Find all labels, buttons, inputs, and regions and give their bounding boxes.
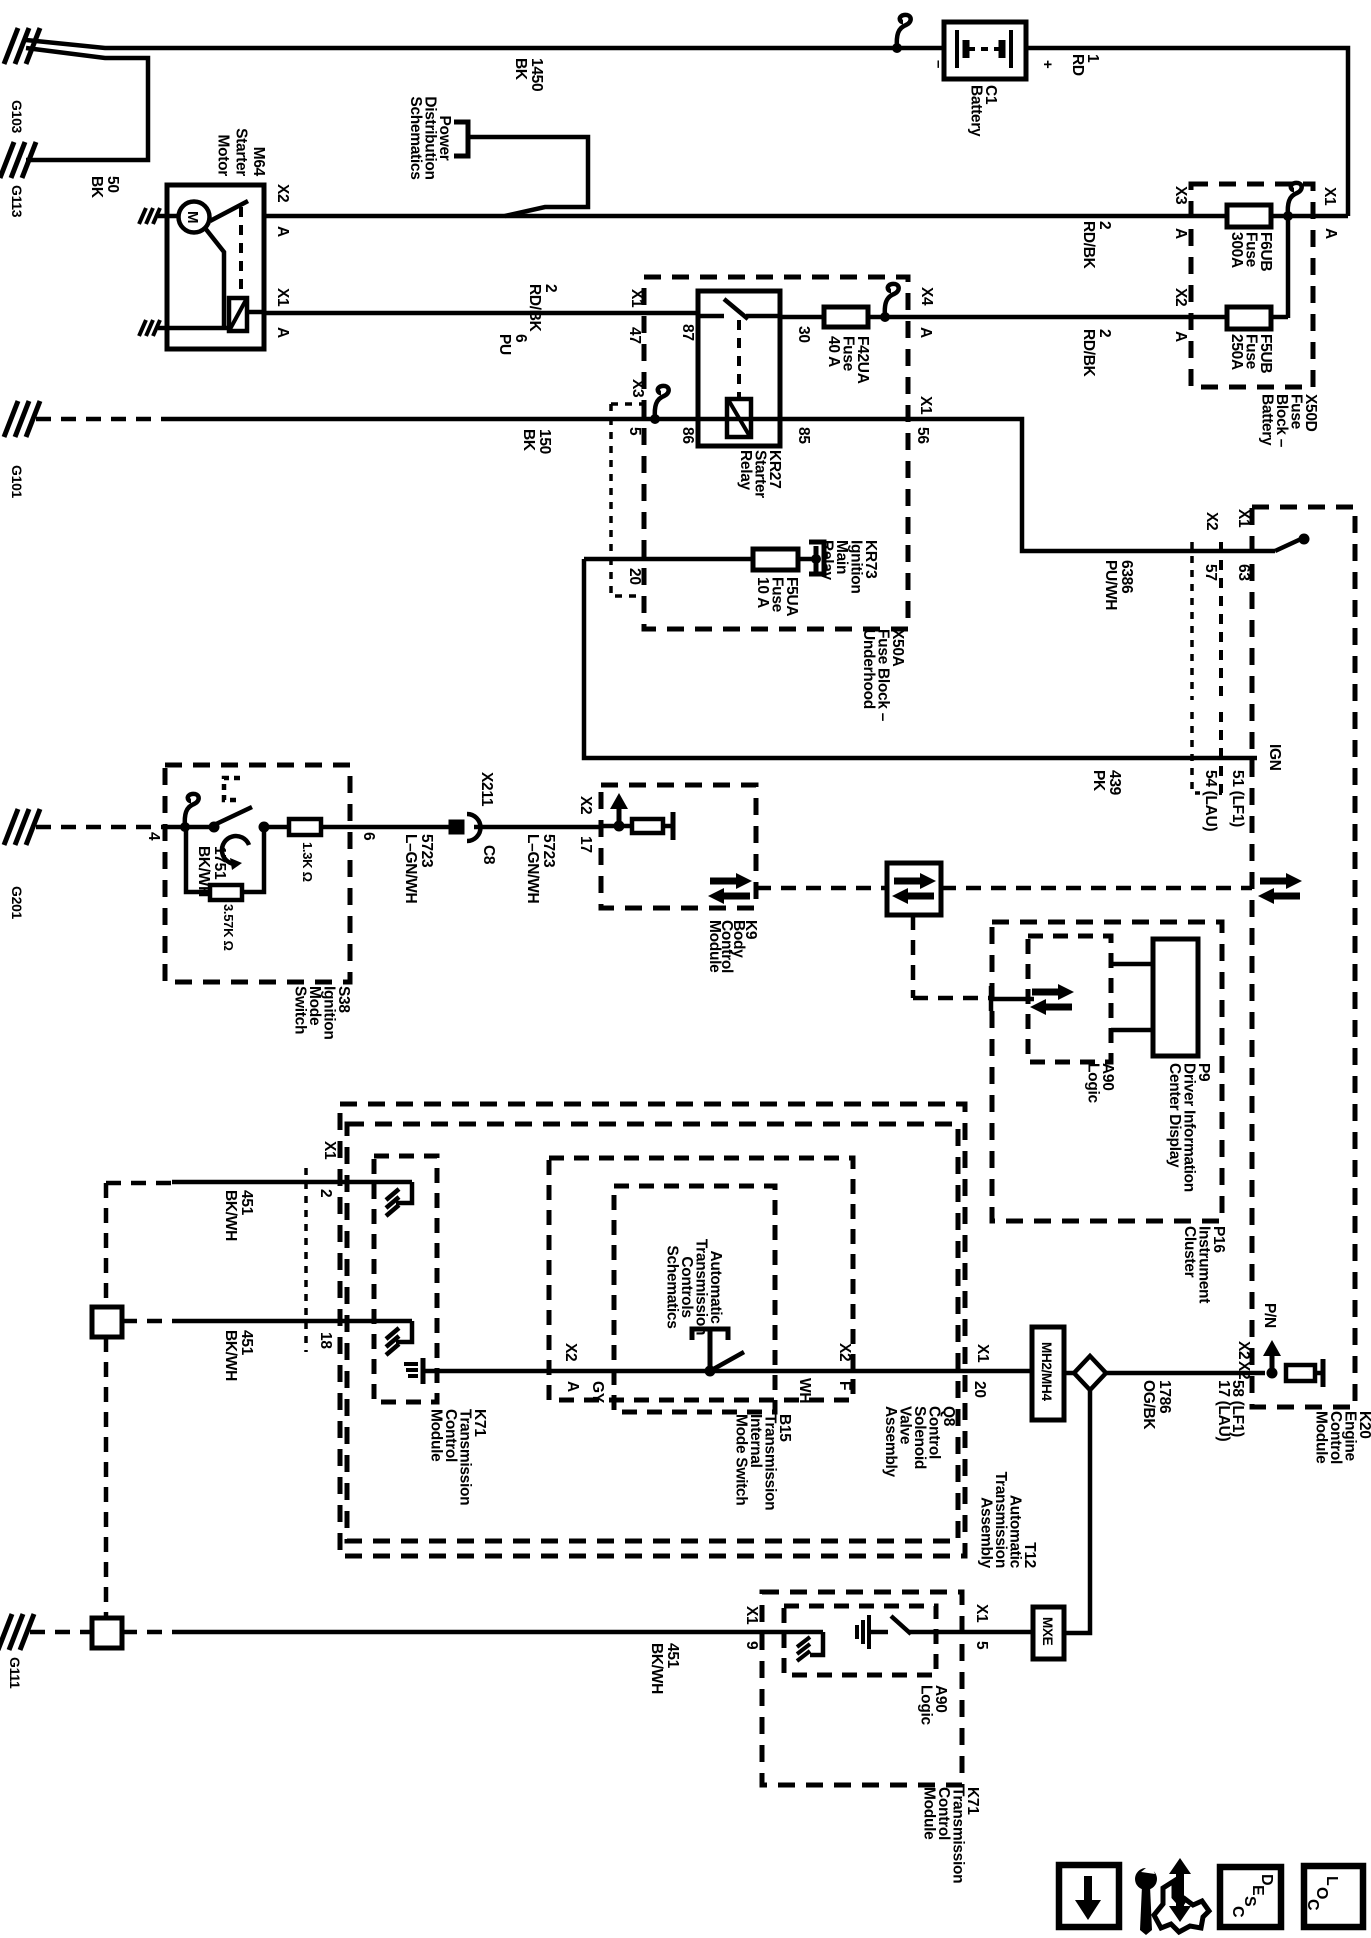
- K20 voltage bar: [1315, 1371, 1323, 1376]
- relay 87 stub: [698, 314, 724, 319]
- serial data wire K9 to splice box: [756, 886, 887, 891]
- wire MH2 to diamond: [1064, 1371, 1075, 1376]
- S38 switch pivot: [209, 822, 220, 833]
- power distribution tap bracket: [454, 122, 468, 156]
- splice curl at F6UB output: [1288, 183, 1302, 216]
- wire 1450 BK: G103 to battery: [26, 40, 944, 48]
- K9 junction: [614, 821, 625, 832]
- hook ground (A90): [810, 1632, 823, 1655]
- svg-text:5: 5: [626, 427, 643, 436]
- connector X1 line (TCM): [304, 1168, 308, 1352]
- svg-text:X2: X2: [577, 796, 594, 814]
- A90 logic dashed box (cluster): [1028, 936, 1111, 1062]
- svg-text:30: 30: [795, 326, 812, 343]
- wire 439 PK riser: [584, 559, 1257, 758]
- engine control module K20 dashed box: [1252, 507, 1355, 1407]
- svg-text:A: A: [274, 327, 291, 338]
- wire 150 BK dashed from G101: [36, 417, 170, 422]
- svg-text:X4: X4: [918, 287, 935, 306]
- wire into A90 logic: [991, 997, 1034, 1002]
- serial data wire to K20: [941, 886, 1252, 891]
- fuse F5UA: [753, 549, 798, 570]
- P9 stub upper: [1111, 962, 1153, 967]
- wire 451 BK/WH upper dashed: [106, 1181, 172, 1186]
- ignition mode switch S38 dashed box: [165, 765, 350, 982]
- ground G201: [4, 809, 18, 845]
- wire 150 BK solid to relay 86: [170, 417, 698, 422]
- starter relay KR27 box: [698, 291, 780, 446]
- junction square (G111): [92, 1618, 122, 1648]
- icon tools: [1135, 1868, 1157, 1890]
- fuse F6UB: [1227, 205, 1271, 227]
- display P9 box: [1153, 939, 1198, 1056]
- svg-text:20: 20: [626, 568, 643, 585]
- B15 junction: [705, 1366, 716, 1377]
- S38 mechanical link bracket dashed: [224, 778, 240, 800]
- starter motor M64 box: [167, 185, 264, 349]
- wire 2 RD/BK jog to power distribution tap: [470, 137, 588, 216]
- splice curl S38: [185, 794, 199, 827]
- battery C1: [944, 22, 1026, 79]
- wire 1751 BK/WH dashed from G201: [36, 825, 170, 830]
- ground G113: [0, 142, 14, 178]
- svg-text:O: O: [1313, 1887, 1330, 1899]
- wire 451 BK/WH mid dashed: [122, 1319, 185, 1324]
- S38 parallel branch wire: [242, 827, 264, 892]
- K9 pullup resistor: [632, 819, 663, 833]
- hook ground (TCM pin 2): [396, 1182, 412, 1203]
- starter switch blade: [210, 201, 248, 221]
- svg-text:X1: X1: [628, 289, 645, 308]
- wire 6386 PU/WH: relay 85 to instrument cluster: [780, 419, 1275, 551]
- wire 451 BK/WH mid solid: [185, 1319, 412, 1324]
- svg-text:X1: X1: [274, 288, 291, 307]
- K20 comparator resistor: [1286, 1365, 1315, 1381]
- svg-text:6: 6: [360, 832, 377, 841]
- splice curl on battery feed: [897, 15, 911, 48]
- svg-text:X1: X1: [973, 1604, 990, 1623]
- fuse block X50A dashed box: [644, 277, 908, 629]
- P16 boundary tick: [989, 986, 994, 1011]
- svg-text:1.3K Ω: 1.3K Ω: [300, 842, 315, 882]
- svg-text:X1: X1: [1235, 509, 1252, 528]
- body control module K9 dashed box: [601, 785, 756, 908]
- icon DESC box: [1220, 1867, 1281, 1927]
- S38 wire to switch pivot: [185, 825, 214, 830]
- KR73 tap tick: [814, 546, 819, 572]
- svg-text:G103: G103: [9, 100, 25, 134]
- svg-text:X2: X2: [274, 184, 291, 202]
- svg-text:F5UBFuse250A: F5UBFuse250A: [1228, 334, 1274, 373]
- svg-text:X2: X2: [1203, 512, 1220, 530]
- wire diamond to MXE: [1064, 1390, 1090, 1633]
- ground G103: [4, 28, 18, 64]
- relay coil: [727, 399, 751, 437]
- wire 2 RD/BK: F42UA to F5UB: [780, 315, 1288, 320]
- svg-text:X1: X1: [917, 396, 934, 415]
- svg-text:–: –: [930, 60, 947, 68]
- svg-text:IGN: IGN: [1266, 744, 1283, 771]
- svg-text:WH: WH: [796, 1378, 813, 1403]
- svg-text:X2: X2: [1235, 1361, 1252, 1379]
- ground stub upper (starter): [139, 208, 146, 224]
- svg-text:85: 85: [795, 427, 812, 444]
- control solenoid valve assembly Q8 dashed box: [549, 1158, 853, 1400]
- S38 contact node: [259, 822, 270, 833]
- wire 451 BK/WH upper solid: [172, 1180, 412, 1185]
- wire F6UB to F5UB link: [1286, 216, 1291, 318]
- svg-text:X1: X1: [974, 1344, 991, 1363]
- svg-text:C: C: [1304, 1899, 1321, 1911]
- splice diamond: [1074, 1356, 1106, 1390]
- wire 6 PU: starter X1 to relay 87: [264, 311, 698, 316]
- B15 switch blade: [710, 1352, 744, 1371]
- svg-text:G201: G201: [9, 886, 25, 920]
- svg-text:C8: C8: [480, 845, 497, 865]
- controls schematics bracket: [692, 1329, 728, 1340]
- svg-text:4: 4: [145, 832, 162, 841]
- splice curl on 150 BK: [655, 386, 669, 419]
- wire 1786 OG/BK to K20: [1106, 1371, 1265, 1376]
- instrument cluster connector X2 line: [1190, 542, 1194, 700]
- KR73 bracket: [809, 542, 824, 574]
- svg-text:20: 20: [971, 1381, 988, 1398]
- K9 input wire: [601, 824, 632, 829]
- S38 rotary arrow: [222, 836, 249, 864]
- K9 serial arrows: [710, 878, 738, 885]
- wire F5UA to KR73 tap: [798, 557, 816, 562]
- wire 50 BK: G103 to G113 loop: [26, 48, 148, 160]
- P9 stub lower: [1111, 1028, 1153, 1033]
- wire starter X1 pin: [247, 310, 264, 315]
- svg-text:17 (LAU): 17 (LAU): [1215, 1380, 1232, 1441]
- svg-text:X2: X2: [836, 1343, 853, 1361]
- K20 serial arrows: [1260, 878, 1288, 885]
- svg-text:X1: X1: [1321, 187, 1338, 206]
- A90 switch blade: [891, 1616, 911, 1634]
- svg-text:F: F: [836, 1381, 853, 1390]
- S38 switch blade: [214, 807, 252, 825]
- icon LOC box: [1304, 1866, 1363, 1927]
- svg-text:150BK: 150BK: [520, 429, 553, 454]
- fuse F5UB: [1227, 307, 1271, 329]
- serial data splice box: [887, 863, 941, 915]
- instrument cluster connector X1 line: [1219, 542, 1223, 700]
- svg-text:C: C: [1229, 1906, 1246, 1918]
- svg-text:E: E: [1249, 1885, 1266, 1896]
- svg-text:A: A: [1172, 331, 1189, 342]
- K9 voltage bar: [663, 824, 673, 829]
- K71 case ground: [421, 1358, 426, 1384]
- svg-text:A: A: [1172, 228, 1189, 239]
- icon branch arrow: [1176, 1872, 1184, 1908]
- transmission assembly outer dashed box: [340, 1104, 965, 1556]
- svg-text:54 (LAU): 54 (LAU): [1202, 770, 1219, 831]
- svg-text:G113: G113: [9, 185, 25, 218]
- svg-text:MXE: MXE: [1040, 1617, 1055, 1646]
- svg-text:3.57K Ω: 3.57K Ω: [221, 904, 236, 951]
- resistor 3.57K: [210, 885, 242, 900]
- svg-text:L: L: [1323, 1876, 1340, 1886]
- svg-text:D: D: [1258, 1874, 1275, 1886]
- inline connector X211 C8: [450, 821, 463, 833]
- serial data branch down to cluster: [911, 915, 916, 998]
- svg-text:X2: X2: [562, 1343, 579, 1361]
- wire 1751 solid into S38: [170, 825, 186, 830]
- svg-text:+: +: [1039, 60, 1056, 69]
- relay coil link dashed: [737, 320, 741, 398]
- starter motor to solenoid wire: [205, 228, 224, 328]
- cluster ignition switch blade: [1275, 539, 1301, 551]
- svg-text:M: M: [184, 211, 201, 223]
- K9 pullup arrow: [617, 807, 622, 826]
- svg-text:2: 2: [317, 1189, 334, 1197]
- starter solenoid coil: [229, 298, 247, 331]
- ground G111: [0, 1614, 12, 1650]
- splice block MXE: [1033, 1607, 1064, 1659]
- relay switch blade: [724, 299, 748, 319]
- svg-text:AutomaticTransmissionControlsS: AutomaticTransmissionControlsSchematics: [664, 1239, 725, 1335]
- splice curl at F42UA: [885, 284, 899, 317]
- svg-text:X3: X3: [1172, 186, 1189, 205]
- svg-text:F6UBFuse300A: F6UBFuse300A: [1228, 232, 1274, 271]
- svg-text:A: A: [274, 226, 291, 237]
- svg-text:86: 86: [679, 427, 696, 444]
- svg-text:17: 17: [577, 836, 594, 853]
- svg-text:18: 18: [317, 1332, 334, 1349]
- svg-text:47: 47: [626, 327, 643, 344]
- A90 logic dashed box (TCM): [784, 1606, 936, 1675]
- A90 serial arrows: [1032, 989, 1060, 996]
- icon download box: [1059, 1865, 1119, 1927]
- motor symbol M: [179, 202, 210, 233]
- svg-text:X211: X211: [478, 772, 495, 807]
- hook ground (TCM pin 18): [396, 1321, 412, 1342]
- transmission signal wire: [423, 1369, 1032, 1374]
- wire A90 switch to MXE: [908, 1630, 1033, 1635]
- relay 86-85 wire: [698, 417, 780, 422]
- wire 451 BK/WH bottom: [184, 1630, 823, 1635]
- transmission internal mode switch B15 dashed box: [614, 1186, 775, 1412]
- connector X3 stub dashed: [611, 402, 643, 406]
- wire 5723 L-GN/WH to X211: [321, 825, 450, 830]
- svg-text:9: 9: [743, 1641, 760, 1650]
- transmission control module K71 lower dashed box: [762, 1592, 962, 1785]
- transmission inner dashed box: [347, 1124, 958, 1541]
- wire 2 RD/BK: starter X2 to F6UB to X1: [264, 214, 1348, 219]
- svg-text:P/N: P/N: [1261, 1303, 1278, 1328]
- ground distribution dashed riser: [104, 1183, 109, 1307]
- ground G101: [4, 401, 18, 437]
- fuse F42UA: [824, 307, 868, 327]
- wire 5723 L-GN/WH to BCM: [474, 825, 601, 830]
- starter solenoid link dashed: [239, 207, 243, 295]
- svg-text:56: 56: [914, 427, 931, 444]
- svg-text:X2: X2: [1172, 288, 1189, 306]
- svg-text:X1: X1: [321, 1141, 338, 1160]
- svg-text:X2: X2: [1235, 1341, 1252, 1359]
- svg-text:63: 63: [1235, 564, 1252, 581]
- transmission control module K71 dashed box: [374, 1156, 437, 1402]
- wire G111 dashed to square: [30, 1630, 92, 1635]
- svg-text:MH2/MH4: MH2/MH4: [1039, 1342, 1054, 1401]
- svg-text:G101: G101: [9, 465, 25, 499]
- fuse F5UA wire: [584, 557, 753, 562]
- junction square (451 splice): [92, 1307, 122, 1337]
- svg-text:X1: X1: [743, 1606, 760, 1625]
- svg-text:5: 5: [973, 1641, 990, 1650]
- A90 case ground: [855, 1625, 859, 1639]
- svg-text:A: A: [564, 1381, 581, 1392]
- svg-text:87: 87: [679, 324, 696, 341]
- relay contact wire: [746, 314, 780, 319]
- resistor 1.3K: [289, 819, 321, 835]
- svg-text:X3: X3: [629, 379, 646, 398]
- svg-text:51 (LF1): 51 (LF1): [1229, 770, 1246, 827]
- instrument cluster P16 dashed box: [992, 922, 1222, 1221]
- ground stub lower (starter): [139, 320, 146, 336]
- fuse block X50D dashed box: [1191, 184, 1313, 387]
- wire 1 RD: battery to fuse block X50D: [1026, 48, 1348, 216]
- K20 P/N junction: [1267, 1368, 1278, 1379]
- wire square to 451 solid: [122, 1630, 184, 1635]
- wire S38 contact to resistor: [264, 825, 289, 830]
- svg-text:G111: G111: [7, 1657, 23, 1689]
- svg-text:A: A: [917, 327, 934, 338]
- svg-text:A: A: [1322, 228, 1339, 239]
- K20 P/N arrow: [1270, 1354, 1275, 1373]
- svg-text:57: 57: [1202, 564, 1219, 581]
- splice block MH2/MH4: [1032, 1327, 1064, 1420]
